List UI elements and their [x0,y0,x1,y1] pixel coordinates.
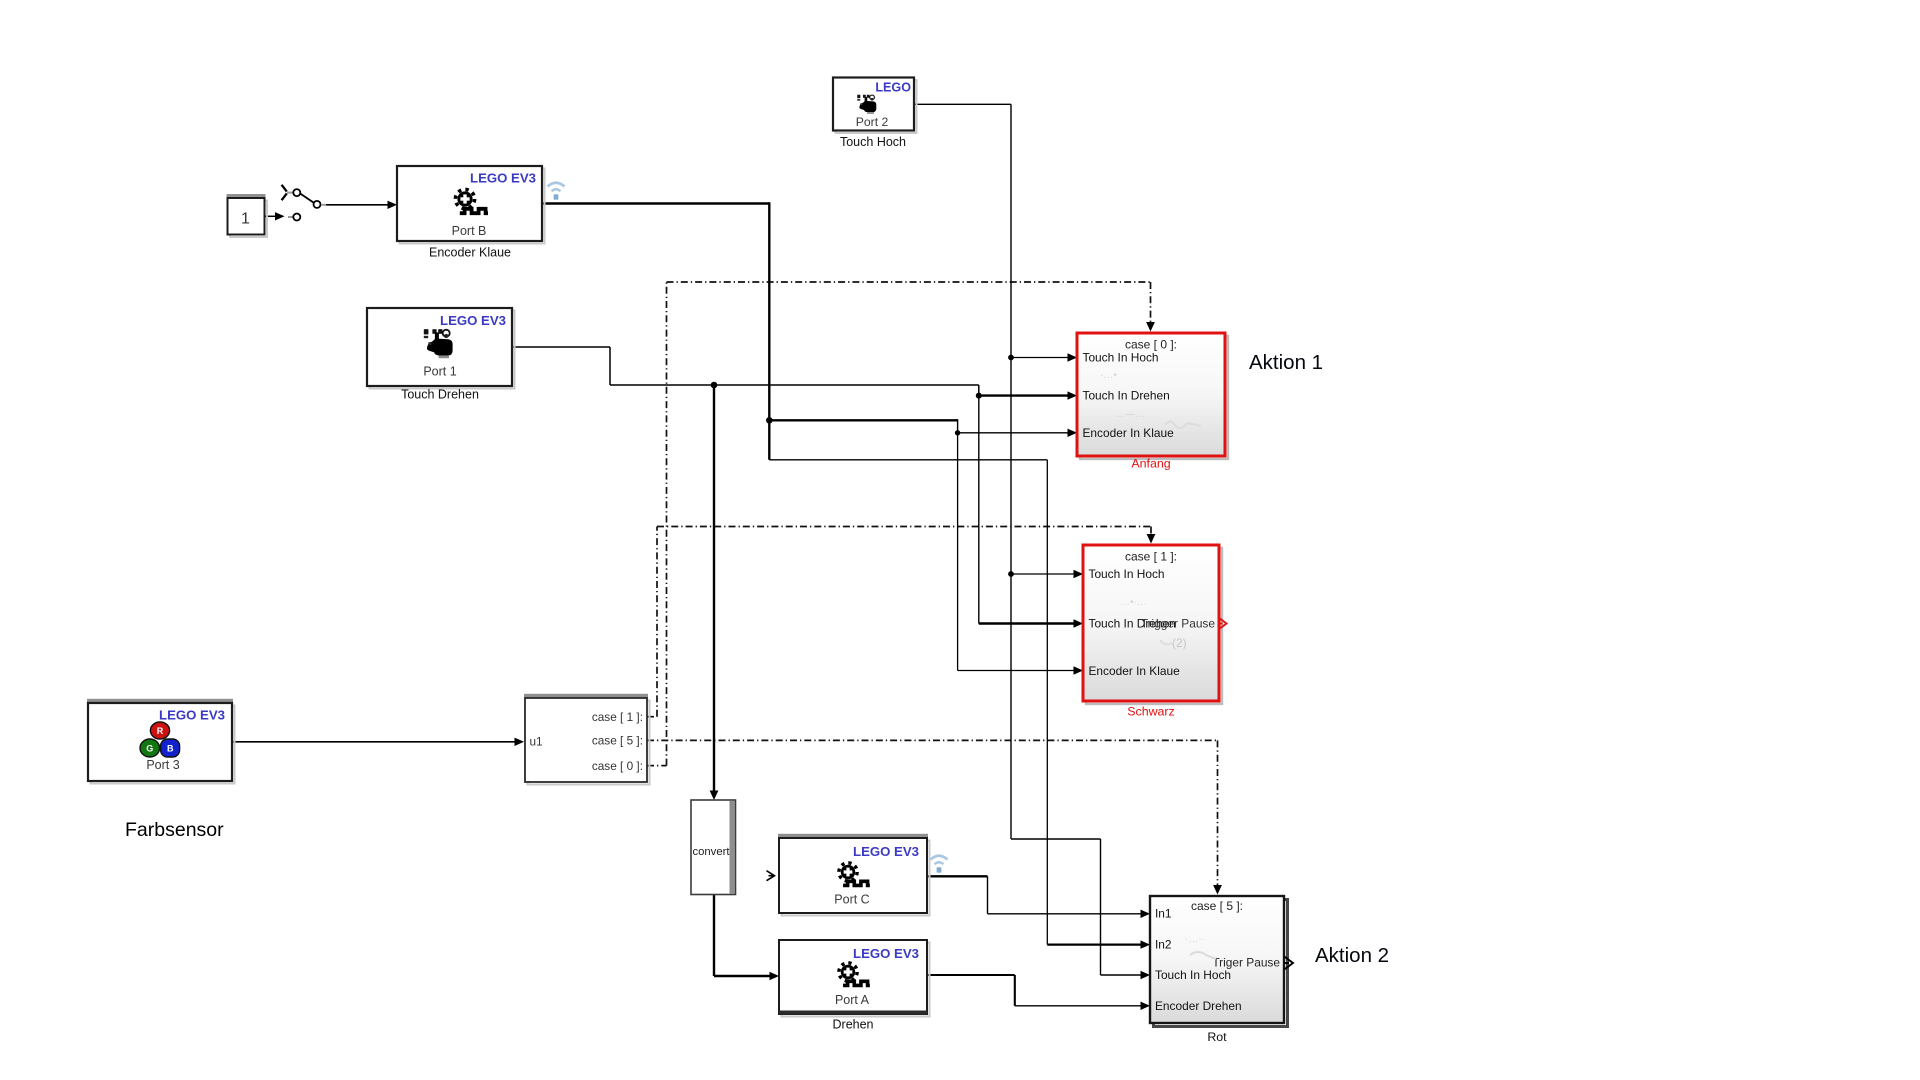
svg-text:Port A: Port A [835,993,870,1007]
block Touch Hoch (LEGO EV3 touch Port 2) [833,78,917,150]
svg-text:Touch In Drehen: Touch In Drehen [1083,389,1170,403]
svg-text:Rot: Rot [1207,1030,1227,1044]
svg-text:In1: In1 [1155,907,1172,921]
convert block [691,800,736,895]
block Port C (LEGO EV3 motor) [778,834,930,916]
subsystem Rot (case 5, Aktion 2) [1150,896,1288,1044]
wire manual switch to Encoder Klaue input [326,201,397,209]
svg-text:Port B: Port B [452,224,487,238]
wire case[5] output to Rot trigger (dash-dot) [647,740,1222,894]
svg-text:…—…: …—… [1115,409,1145,420]
switch case block [524,694,650,785]
svg-text:·…··: ·…·· [1185,934,1205,945]
svg-text:LEGO EV3: LEGO EV3 [159,708,225,723]
svg-text:Triger Pause: Triger Pause [1212,956,1280,970]
svg-text:Port 1: Port 1 [423,365,456,379]
block Encoder Klaue (LEGO EV3 motor Port B) [397,166,545,260]
unconnected output port Schwarz Trigger Pause [1218,617,1227,630]
svg-text:Port 2: Port 2 [856,115,889,129]
svg-text:Touch Hoch: Touch Hoch [840,135,906,149]
svg-text:Farbsensor: Farbsensor [125,819,224,841]
svg-text:Touch In Hoch: Touch In Hoch [1155,968,1231,982]
annotation Aktion 1 [1249,351,1323,374]
svg-text:u1: u1 [530,735,543,749]
svg-text:LEGO EV3: LEGO EV3 [853,946,919,961]
svg-text:Port C: Port C [834,893,869,907]
svg-text:Schwarz: Schwarz [1127,705,1175,719]
svg-text:case [ 5 ]:: case [ 5 ]: [592,734,643,748]
wire Touch Drehen output net [512,347,1083,628]
svg-text:Anfang: Anfang [1131,457,1170,471]
svg-text:R: R [157,726,164,736]
wifi icon Encoder Klaue [548,183,565,200]
svg-text:case [ 0 ]:: case [ 0 ]: [592,759,643,773]
wire constant 1 to manual switch [265,212,285,220]
svg-text:·…•: ·…• [1100,370,1117,381]
svg-text:Port 3: Port 3 [146,758,179,772]
wire Encoder Klaue output net [542,202,1150,949]
svg-text:In2: In2 [1155,938,1172,952]
svg-text:LEGO EV3: LEGO EV3 [440,313,506,328]
block Port 3 (LEGO EV3 color sensor) [87,699,235,784]
svg-text:LEGO EV3: LEGO EV3 [853,844,919,859]
wire Touch Hoch output net [914,104,1150,979]
svg-text:B: B [167,744,174,754]
svg-text:Encoder Klaue: Encoder Klaue [429,246,511,260]
subsystem Anfang (case 0, Aktion 1) [1077,333,1228,471]
wire Port 3 color sensor to case block u1 [232,738,524,746]
svg-text:case [ 5 ]:: case [ 5 ]: [1191,899,1243,913]
svg-text:G: G [146,744,153,754]
manual switch [282,185,326,221]
svg-text:Touch In Hoch: Touch In Hoch [1083,351,1159,365]
wifi icon Port C [931,856,948,873]
svg-text:Touch In Hoch: Touch In Hoch [1089,567,1165,581]
annotation Farbsensor [125,819,224,841]
wire Port C output to Rot In1 [927,876,1150,918]
wire case[0] output to Anfang trigger (dash-dot) [647,282,1155,766]
svg-text:Drehen: Drehen [833,1018,874,1032]
wire Port A output to Rot Encoder Drehen [927,975,1150,1010]
wire convert output to Port A motor [714,895,779,981]
svg-text:case [ 0 ]:: case [ 0 ]: [1125,338,1177,352]
svg-text:Touch Drehen: Touch Drehen [401,388,479,402]
svg-text:Trigger Pause: Trigger Pause [1141,617,1216,631]
annotation Aktion 2 [1315,944,1389,967]
svg-text:1: 1 [241,211,250,228]
svg-text:Aktion 2: Aktion 2 [1315,944,1389,967]
svg-text:case [ 1 ]:: case [ 1 ]: [592,710,643,724]
svg-text:case [ 1 ]:: case [ 1 ]: [1125,550,1177,564]
svg-text:convert: convert [692,846,730,858]
subsystem Schwarz (case 1) [1083,545,1222,719]
block Touch Drehen (LEGO EV3 touch Port 1) [367,308,515,402]
constant block value 1 [227,194,268,237]
block Port A (LEGO EV3 motor, Drehen) [779,940,930,1032]
svg-text:Aktion 1: Aktion 1 [1249,351,1323,374]
svg-text:Encoder In Klaue: Encoder In Klaue [1083,426,1175,440]
svg-text:…•·…: …•·… [1120,597,1147,608]
wire case[1] output to Schwarz trigger (dash-dot) [647,527,1155,717]
svg-text:Encoder Drehen: Encoder Drehen [1155,999,1242,1013]
wire Touch Drehen to convert block [710,385,719,800]
svg-text:LEGO: LEGO [875,81,911,95]
unconnected input port Port C [767,871,775,881]
svg-text:LEGO EV3: LEGO EV3 [470,171,536,186]
svg-text:Encoder In Klaue: Encoder In Klaue [1089,664,1181,678]
unconnected output port Rot Triger Pause [1285,957,1294,970]
